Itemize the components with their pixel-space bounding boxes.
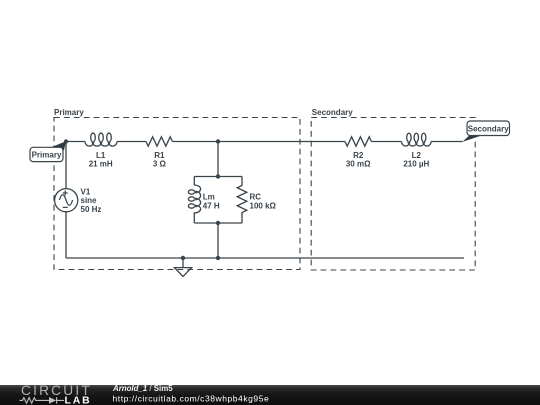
svg-text:LAB: LAB bbox=[65, 395, 92, 405]
wire bottom rail bbox=[66, 257, 464, 259]
inductor Lm bbox=[188, 177, 200, 224]
flag pointer Secondary bbox=[462, 135, 482, 142]
wire V1 top bbox=[65, 142, 67, 189]
svg-text:Primary: Primary bbox=[32, 150, 62, 159]
V1 plus sign bbox=[63, 191, 68, 196]
inductor L1 bbox=[85, 133, 117, 146]
resistor RC bbox=[237, 177, 247, 224]
wire node down to Lm/RC pair bbox=[217, 142, 219, 177]
svg-text:30 mΩ: 30 mΩ bbox=[346, 160, 371, 169]
svg-text:210 µH: 210 µH bbox=[403, 160, 429, 169]
svg-text:3 Ω: 3 Ω bbox=[153, 160, 167, 169]
svg-text:http://circuitlab.com/c38whpb4: http://circuitlab.com/c38whpb4kg95e bbox=[113, 394, 270, 404]
svg-text:V1: V1 bbox=[81, 187, 91, 196]
wire L1 to R1 bbox=[117, 141, 146, 143]
svg-text:50 Hz: 50 Hz bbox=[81, 205, 102, 214]
dashed box Secondary bbox=[311, 118, 475, 271]
voltage source V1 circle bbox=[55, 189, 78, 212]
V1 minus sign bbox=[63, 206, 68, 208]
svg-text:Lm: Lm bbox=[203, 193, 215, 202]
svg-text:Primary: Primary bbox=[54, 108, 84, 117]
logo resistor-diode symbol bbox=[20, 397, 65, 403]
svg-text:Arnold_1 / Sim5: Arnold_1 / Sim5 bbox=[112, 384, 173, 393]
svg-text:21 mH: 21 mH bbox=[89, 160, 113, 169]
wire V1 bottom bbox=[65, 212, 67, 258]
flag balloon Secondary bbox=[467, 121, 510, 136]
svg-text:Secondary: Secondary bbox=[468, 124, 509, 133]
flag balloon Primary bbox=[30, 147, 63, 161]
wire L2 to Secondary flag bbox=[431, 141, 462, 143]
flag pointer Primary bbox=[49, 141, 67, 150]
wire R1 to R2 through node bbox=[172, 141, 345, 143]
node dot pair bottom bbox=[216, 221, 220, 225]
V1 sine wave bbox=[59, 195, 72, 206]
resistor R1 bbox=[146, 137, 172, 146]
wire R2 to L2 bbox=[371, 141, 401, 143]
ground bbox=[174, 258, 191, 276]
svg-text:sine: sine bbox=[81, 196, 98, 205]
node dot primary flag junction bbox=[64, 139, 68, 143]
wire main top rail bbox=[66, 141, 85, 143]
node dot pair top bbox=[216, 174, 220, 178]
node dot main rail to pair bbox=[216, 139, 220, 143]
wire pair down to ground rail bbox=[217, 223, 219, 258]
svg-text:Secondary: Secondary bbox=[312, 108, 353, 117]
footer bar bbox=[0, 385, 540, 405]
node dot bottom rail bbox=[216, 256, 220, 260]
dashed box Primary bbox=[54, 118, 300, 270]
svg-text:47 H: 47 H bbox=[203, 201, 220, 210]
resistor R2 bbox=[345, 137, 371, 146]
inductor L2 bbox=[402, 133, 432, 146]
node dot ground junction bbox=[181, 256, 185, 260]
wire parallel bottom rail bbox=[194, 222, 242, 224]
wire parallel top rail bbox=[194, 176, 242, 178]
svg-text:RC: RC bbox=[250, 193, 262, 202]
svg-text:100 kΩ: 100 kΩ bbox=[250, 201, 277, 210]
